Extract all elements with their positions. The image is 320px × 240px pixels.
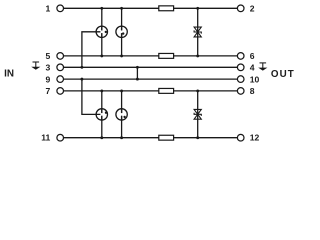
wire line 3-4 <box>64 66 238 68</box>
wire tap from F1 left electrode down to line 3 <box>82 32 101 68</box>
wire line 7-8 <box>64 90 238 92</box>
wire GDT column A bottom (line7 to F3 to line11) <box>101 91 103 113</box>
arrow OUT direction <box>258 63 267 71</box>
terminal 2 <box>237 5 244 12</box>
wire TVS column bottom (line7 to line11) <box>197 91 199 138</box>
svg-text:11: 11 <box>41 132 50 142</box>
terminal 11 <box>57 134 64 141</box>
terminal 1 <box>57 5 64 12</box>
svg-text:8: 8 <box>250 86 255 96</box>
wire TVS column top (line1 to line5) <box>197 8 199 56</box>
resistor R1 <box>159 6 174 11</box>
wire GDT column B top (line1 to F2 to line5) <box>121 8 123 30</box>
node line7/TVS <box>196 89 199 92</box>
gas discharge tube F3 (3-electrode, bottom left) <box>96 109 107 120</box>
arrow IN direction <box>31 62 40 70</box>
wire line 9-10 <box>64 78 238 80</box>
node line11/TVS <box>196 136 199 139</box>
gas discharge tube F4 (bottom right) <box>116 109 127 120</box>
resistor R4 <box>159 135 174 140</box>
terminal 6 <box>237 53 244 60</box>
node line11/colB <box>120 136 123 139</box>
terminal 7 <box>57 88 64 95</box>
svg-text:3: 3 <box>46 63 51 73</box>
node line3/tap <box>80 66 83 69</box>
svg-text:9: 9 <box>46 74 51 84</box>
node line1/colA <box>100 7 103 10</box>
wire line 1-2 <box>64 7 238 9</box>
wire line 11-12 <box>64 137 238 139</box>
svg-text:2: 2 <box>250 3 255 13</box>
wire GDT column B bottom (line7 to F4 to line11) <box>121 91 123 113</box>
wire line 5-6 <box>64 55 238 57</box>
TVS suppressor diode V2 (bottom) <box>194 109 201 119</box>
node line5/TVS <box>196 54 199 57</box>
node line1/colB <box>120 7 123 10</box>
gas discharge tube F1 (3-electrode, top left) <box>96 26 107 37</box>
wire connector between line 3 and line 9 <box>136 67 138 79</box>
resistor R2 <box>159 53 174 58</box>
svg-text:5: 5 <box>46 51 51 61</box>
node junction dots <box>80 7 199 139</box>
node line3/mid <box>136 66 139 69</box>
svg-text:12: 12 <box>250 132 260 142</box>
svg-text:IN: IN <box>4 68 14 79</box>
node line9/tap <box>80 78 83 81</box>
terminal 8 <box>237 88 244 95</box>
svg-text:1: 1 <box>46 3 51 13</box>
node line1/TVS <box>196 7 199 10</box>
svg-text:6: 6 <box>250 51 255 61</box>
TVS suppressor diode V1 (top) <box>194 27 201 37</box>
svg-text:7: 7 <box>46 86 51 96</box>
gas discharge tube F2 (top right) <box>116 26 127 37</box>
svg-text:OUT: OUT <box>271 69 295 80</box>
resistor R3 <box>159 88 174 93</box>
node line7/colA <box>100 89 103 92</box>
svg-text:10: 10 <box>250 74 260 84</box>
terminal 5 <box>57 53 64 60</box>
svg-text:4: 4 <box>250 63 255 73</box>
node line5/colA <box>100 54 103 57</box>
node line7/colB <box>120 89 123 92</box>
terminal 9 <box>57 76 64 83</box>
terminal 4 <box>237 64 244 71</box>
terminal 10 <box>237 76 244 83</box>
terminal 3 <box>57 64 64 71</box>
wire GDT column A top (line1 to F1 to line5) <box>101 8 103 30</box>
terminal 12 <box>237 134 244 141</box>
node line11/colA <box>100 136 103 139</box>
wire tap from F3 left electrode up to line 9 <box>82 79 101 114</box>
node line5/colB <box>120 54 123 57</box>
node line9/mid <box>136 78 139 81</box>
